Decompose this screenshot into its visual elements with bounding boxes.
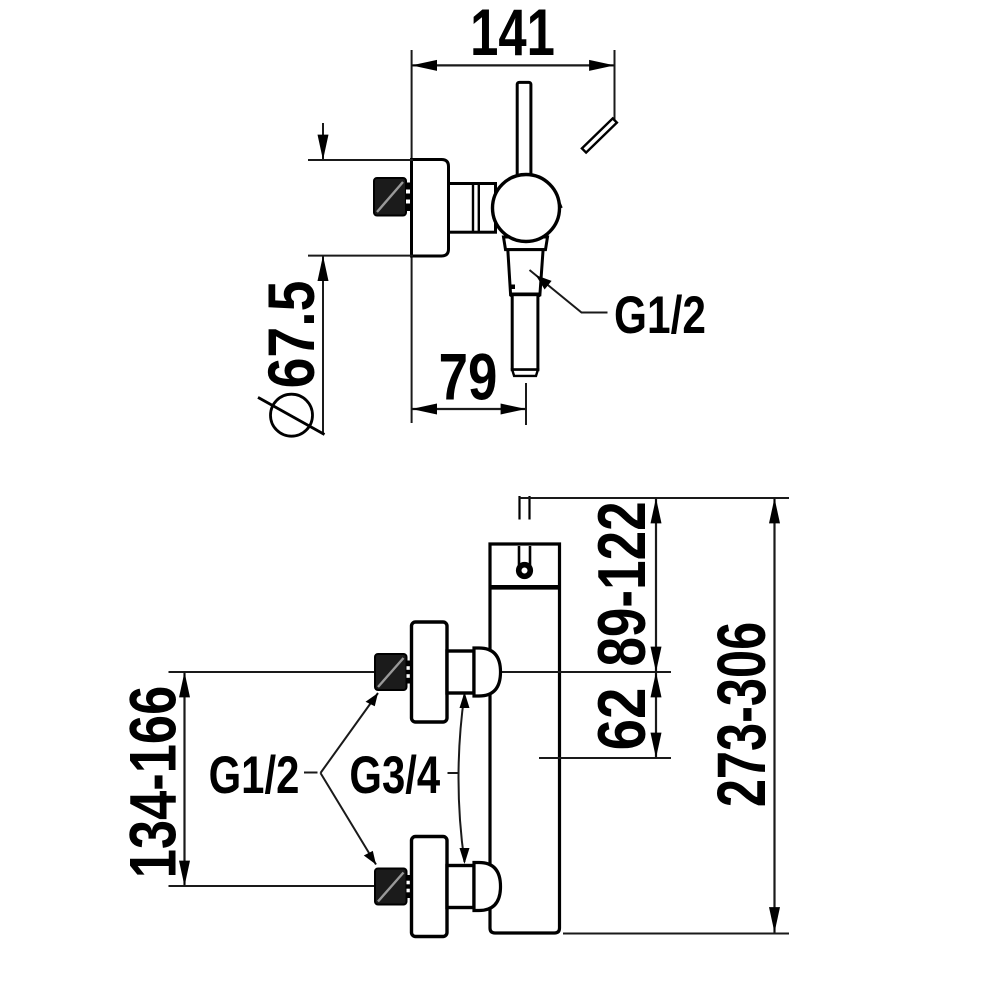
lever ghost position (rotated) [582, 118, 617, 152]
label G1/2 front view [209, 746, 300, 805]
svg-text:67.5: 67.5 [255, 281, 329, 389]
center/extension line right crossing body [500, 671, 671, 673]
neck ring below ball [504, 237, 548, 250]
top extension line (273-306 / 89-122) [520, 497, 790, 499]
dimension line 273-306 [773, 498, 775, 933]
dimension line 89-122 [655, 498, 657, 672]
pipe band lines [472, 184, 474, 233]
arrowhead right of dim 141 [589, 60, 614, 71]
extension line top of plate [308, 159, 413, 161]
wall plate (escutcheon) [412, 160, 449, 257]
leader G3/4: dash and bowed line [448, 694, 465, 862]
dimension text 89-122 (rotated) [584, 501, 660, 666]
dimension text 141 [470, 0, 555, 70]
svg-text:79: 79 [439, 340, 498, 414]
leader arrowhead G1/2 top [536, 275, 552, 289]
dimension text 67.5 (rotated) [255, 281, 329, 389]
shower hose stub above body [518, 496, 520, 520]
svg-text:G3/4: G3/4 [349, 746, 440, 805]
connecting pipe plate to body [449, 184, 496, 233]
leader G1/2 front: dash and fan [304, 693, 378, 865]
dimension text 62 (rotated) [584, 688, 660, 751]
bottom extension line [563, 933, 789, 935]
ball right nub [560, 203, 562, 208]
body cap bottom line [490, 585, 560, 590]
lower union nut [447, 866, 474, 908]
lower thread stub [407, 875, 414, 898]
leader arrowhead down to lower nut [460, 848, 470, 864]
center line below outlet [525, 383, 527, 425]
svg-text:141: 141 [470, 0, 555, 70]
svg-text:273-306: 273-306 [702, 622, 780, 807]
arrowhead left of dim 79 [412, 404, 437, 415]
outlet pipe bottom cap [512, 370, 538, 376]
cone left tick [511, 285, 516, 290]
extension line bottom of plate [308, 255, 413, 257]
label G1/2 top view [614, 287, 706, 346]
upper dome cap [474, 648, 501, 696]
dimension line 79 [412, 408, 526, 410]
main body [490, 544, 560, 933]
mixer ball body [493, 175, 560, 242]
center/extension line left (134-166 & G) [169, 671, 377, 673]
thread stub between square and plate [406, 183, 412, 212]
lever handle [517, 82, 531, 177]
lower wall square (hatched) [375, 869, 407, 905]
dimension text 79 [439, 340, 498, 414]
upper escutcheon disc [412, 622, 448, 722]
lower escutcheon disc [412, 837, 448, 937]
svg-text:89-122: 89-122 [584, 501, 660, 666]
svg-text:G1/2: G1/2 [209, 746, 300, 805]
leader arrowhead up to upper nut [460, 692, 470, 708]
dimension text 273-306 (rotated) [702, 622, 780, 807]
dimension text 134-166 (rotated) [116, 686, 190, 879]
outlet pipe [512, 295, 538, 370]
svg-text:G1/2: G1/2 [614, 287, 706, 346]
upper union nut [447, 651, 474, 693]
keyhole circle [519, 565, 531, 577]
extension line left at lower connector [169, 885, 377, 887]
svg-text:134-166: 134-166 [116, 686, 190, 879]
lower dome cap [474, 863, 501, 911]
dimension line 134-166 [183, 672, 185, 886]
arrowhead right of dim 79 [501, 404, 526, 415]
keyhole slot in cap [518, 546, 521, 566]
leader arrowhead to upper square [364, 693, 380, 708]
extension line right of dim 141 [614, 50, 616, 125]
dimension 67.5 lower line with arrow [322, 256, 324, 434]
dimension line 141 [412, 64, 615, 66]
outlet cone [508, 250, 543, 295]
dimension line 62 [655, 672, 657, 758]
extension line left of dim 141/79 [411, 50, 413, 423]
dimension 67.5 upper arrow segment [322, 123, 324, 160]
svg-text:62: 62 [584, 688, 660, 751]
wall connection square (hatched) [374, 178, 406, 216]
upper thread stub [407, 661, 414, 684]
reference line 62 bottom [539, 757, 671, 759]
leader line G1/2 top view [530, 270, 608, 313]
upper wall square (hatched) [375, 654, 407, 690]
diameter symbol [271, 394, 313, 436]
label G3/4 front view [349, 746, 440, 805]
arrowhead left of dim 141 [412, 60, 437, 71]
